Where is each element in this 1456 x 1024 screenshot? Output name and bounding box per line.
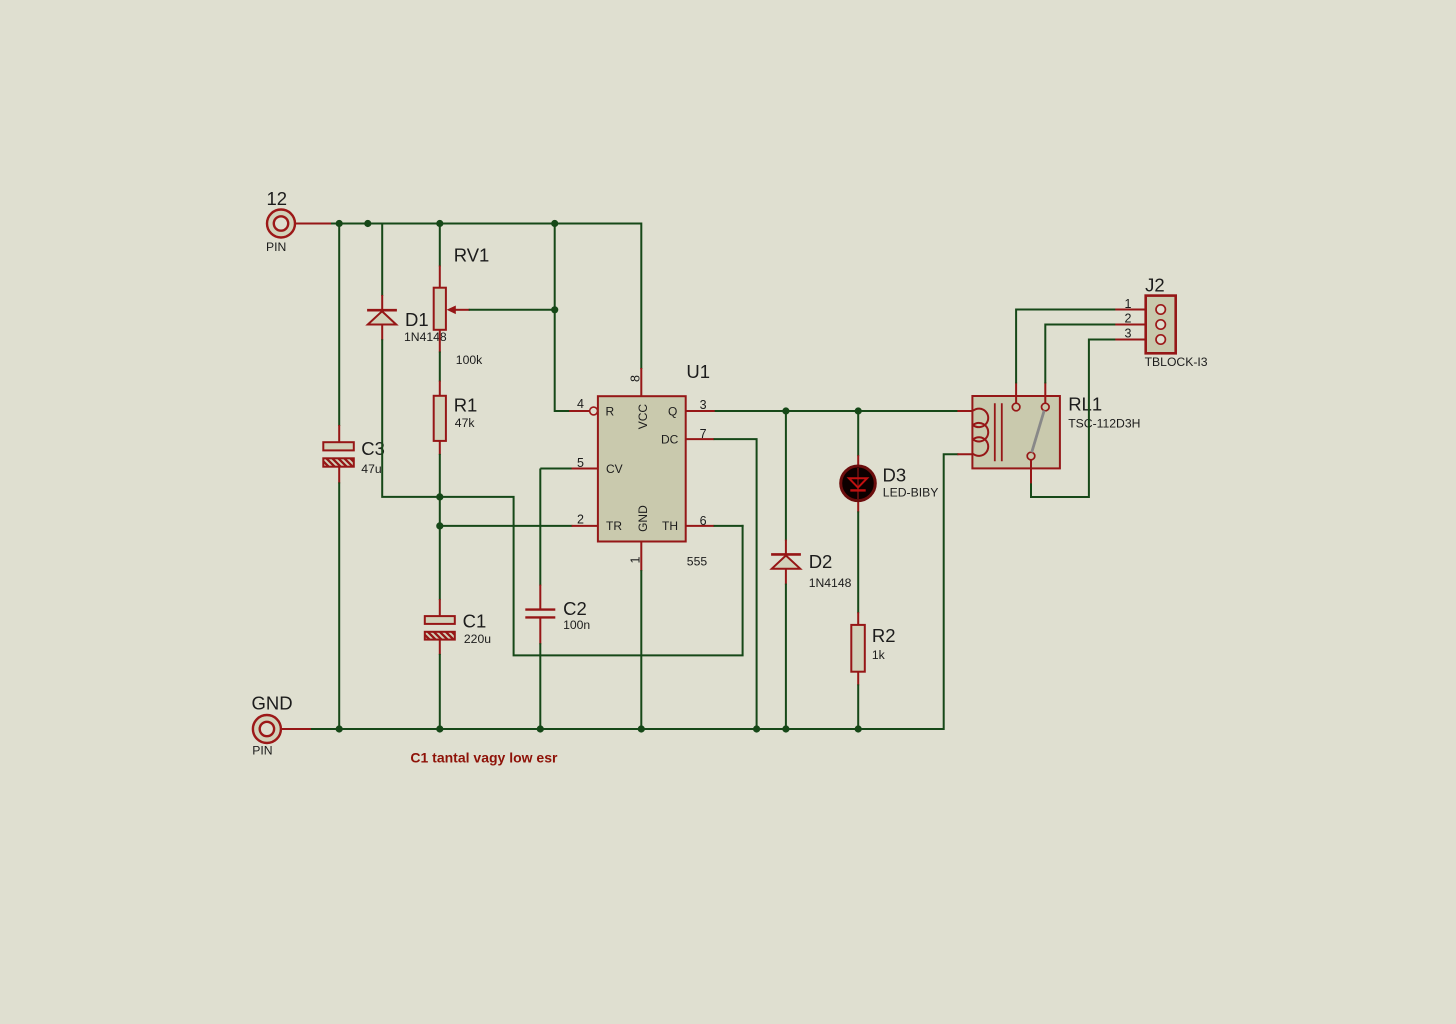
capacitor C1 220u polarized <box>425 611 491 647</box>
svg-text:2: 2 <box>577 512 584 526</box>
svg-text:LED-BIBY: LED-BIBY <box>883 485 939 499</box>
wire TR horizontal <box>440 525 573 527</box>
wire relay contact1 to J2 pin1 <box>1016 310 1116 384</box>
svg-text:VCC: VCC <box>636 404 650 430</box>
wire pin8 VCC stub <box>640 368 642 396</box>
diode D2 1N4148 <box>771 551 852 590</box>
wire pin12 red stub <box>295 223 331 225</box>
svg-text:47u: 47u <box>361 462 381 476</box>
svg-text:2: 2 <box>1125 312 1132 326</box>
svg-text:TR: TR <box>606 519 622 533</box>
wire D3/R2 branch <box>857 411 859 456</box>
wire Q output line <box>686 410 716 412</box>
wire relay common to J2 pin3 <box>1031 340 1116 498</box>
svg-text:6: 6 <box>700 514 707 528</box>
relay RL1 TSC-112D3H <box>972 382 1140 484</box>
svg-text:C1: C1 <box>463 611 487 632</box>
svg-text:RV1: RV1 <box>454 245 490 266</box>
ground terminal GND PIN <box>252 693 293 758</box>
wire top rail 12V <box>330 224 641 370</box>
svg-text:D1: D1 <box>405 309 429 330</box>
svg-text:C1 tantal vagy low esr: C1 tantal vagy low esr <box>410 749 558 765</box>
svg-text:4: 4 <box>577 397 584 411</box>
svg-text:TSC-112D3H: TSC-112D3H <box>1068 417 1140 431</box>
svg-text:8: 8 <box>629 375 643 382</box>
svg-text:47k: 47k <box>455 416 476 430</box>
wire D2 branch <box>785 411 787 541</box>
svg-text:CV: CV <box>606 462 623 476</box>
svg-text:PIN: PIN <box>266 240 286 254</box>
op-amp U1 555 body <box>577 361 710 568</box>
wire RV1 wiper to R pin <box>469 224 571 412</box>
svg-text:1N4148: 1N4148 <box>809 576 852 590</box>
wire CV branch with C2 <box>540 469 572 586</box>
svg-text:5: 5 <box>577 456 584 470</box>
wire TH stub <box>686 525 715 527</box>
svg-text:1k: 1k <box>872 648 886 662</box>
svg-text:3: 3 <box>700 398 707 412</box>
svg-text:555: 555 <box>687 554 708 568</box>
svg-text:220u: 220u <box>464 632 491 646</box>
svg-text:TH: TH <box>662 519 678 533</box>
svg-text:DC: DC <box>661 433 679 447</box>
svg-text:7: 7 <box>700 427 707 441</box>
wire pin1 GND stub <box>640 542 642 572</box>
svg-text:C2: C2 <box>563 598 587 619</box>
svg-text:RL1: RL1 <box>1068 394 1102 415</box>
svg-text:GND: GND <box>636 505 650 532</box>
svg-text:12: 12 <box>267 188 288 209</box>
resistor R2 1k <box>851 625 895 672</box>
svg-text:R1: R1 <box>454 395 478 416</box>
wire DC pin7 down <box>686 438 715 440</box>
diode D1 1N4148 <box>367 309 447 344</box>
svg-text:R: R <box>606 404 615 418</box>
wire relay contact2 to J2 pin2 <box>1045 325 1116 384</box>
svg-text:R2: R2 <box>872 625 896 646</box>
capacitor C3 47u polarized <box>323 438 385 476</box>
capacitor C2 100n <box>525 598 590 632</box>
wire C3 branch vertical <box>338 224 340 427</box>
svg-text:PIN: PIN <box>252 743 272 757</box>
svg-text:3: 3 <box>1125 326 1132 340</box>
LED D3 LED-BIBY <box>841 464 939 500</box>
connector J2 TBLOCK-I3 <box>1125 275 1208 369</box>
wire GND rail <box>310 454 958 729</box>
potentiometer RV1 100k <box>434 245 490 367</box>
svg-text:GND: GND <box>252 693 293 714</box>
wire RV1/R1/C1 branch vertical <box>439 224 441 267</box>
svg-text:D3: D3 <box>883 464 907 485</box>
power terminal 12 PIN <box>266 188 295 254</box>
wire D1 branch vertical + thr loop <box>381 224 383 297</box>
svg-text:U1: U1 <box>686 361 710 382</box>
svg-text:100n: 100n <box>563 618 590 632</box>
svg-text:J2: J2 <box>1145 275 1165 296</box>
svg-text:Q: Q <box>668 404 677 418</box>
svg-text:1: 1 <box>1125 297 1132 311</box>
svg-text:TBLOCK-I3: TBLOCK-I3 <box>1145 355 1208 369</box>
svg-text:D2: D2 <box>809 551 833 572</box>
svg-text:1: 1 <box>629 557 643 564</box>
junction dots <box>336 220 862 733</box>
resistor R1 47k <box>434 395 478 441</box>
svg-text:100k: 100k <box>456 353 483 367</box>
